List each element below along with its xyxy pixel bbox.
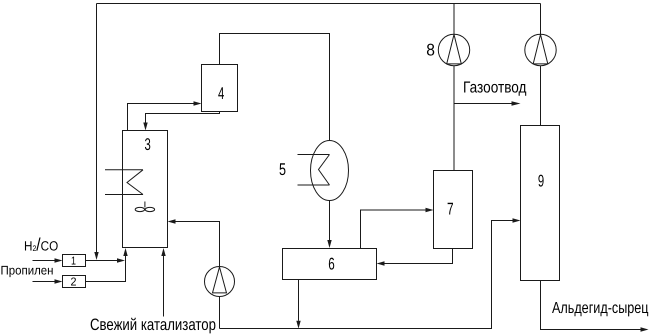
wire recycle gas downcomer [96, 4, 98, 253]
arrowhead crude aldehyde outlet [641, 327, 649, 331]
arrowhead feed junction [117, 258, 125, 262]
svg-text:4: 4 [218, 84, 224, 103]
vessel 7 [434, 171, 473, 249]
compressor 8 [438, 34, 469, 65]
column 9 [521, 126, 560, 281]
reactor 3 [123, 131, 168, 248]
compressor (right) [525, 34, 556, 65]
wire doser 1 outlet [86, 260, 118, 262]
doser 2 [63, 276, 86, 288]
wire reactor 3 overhead to condenser 4 [128, 104, 194, 131]
svg-text:Альдегид-сырец: Альдегид-сырец [552, 300, 649, 317]
svg-text:9: 9 [538, 171, 544, 190]
wire gas vent arrow [454, 103, 512, 105]
arrowhead reflux into reactor 3 top [143, 123, 147, 131]
wire cooler 5 to separator 6 [329, 201, 331, 241]
arrowhead pump discharge into reactor 3 [168, 219, 176, 223]
wire H2/CO feed arrow into doser 1 [33, 260, 55, 262]
svg-text:5: 5 [279, 160, 286, 179]
wire column 9 overhead to compressor [540, 4, 542, 126]
arrowhead H2/CO into doser 1 [55, 258, 63, 262]
cooler 5 [311, 141, 349, 201]
arrowhead recycle gas onto feed line [94, 252, 98, 260]
reactor 3 agitator [135, 207, 144, 211]
arrowhead liquid into column 9 [513, 218, 521, 222]
wire pump discharge to reactor 3 [176, 222, 220, 267]
wire recycle gas header [97, 3, 541, 5]
arrowhead cooler 5 outlet into separator 6 [327, 240, 331, 248]
arrowhead feed into reactor 3 bottom [123, 248, 127, 256]
wire separator 6 liquid header to column 9 [220, 221, 513, 329]
wire pump suction [219, 297, 221, 329]
separator 6 [283, 249, 377, 280]
wire condenser 4 vapor to cooler 5 [220, 34, 330, 141]
reactor 3 cooling coil [105, 170, 143, 195]
svg-text:8: 8 [426, 41, 435, 60]
arrowhead gas vent [512, 101, 521, 105]
arrowhead separator 6 drain [296, 321, 300, 329]
svg-text:Свежий катализатор: Свежий катализатор [90, 316, 216, 334]
arrowhead vapor into vessel 7 [426, 208, 434, 212]
arrowhead fresh catalyst into reactor 3 [161, 248, 165, 256]
wire propylene feed arrow into doser 2 [33, 281, 55, 283]
arrowhead overhead into condenser 4 [194, 101, 202, 105]
svg-text:2: 2 [71, 276, 77, 288]
wire vessel 7 bottoms return to separator 6 [385, 249, 453, 264]
svg-text:3: 3 [145, 135, 151, 154]
wire separator 6 vapor to vessel 7 [361, 210, 426, 249]
wire condenser 4 reflux to reactor 3 [146, 112, 220, 123]
doser 1 [63, 255, 86, 267]
svg-text:1: 1 [71, 255, 76, 267]
arrowhead vessel 7 return into separator 6 [377, 261, 385, 265]
arrowhead propylene into doser 2 [55, 279, 63, 283]
svg-text:6: 6 [328, 255, 335, 274]
svg-text:Пропилен: Пропилен [1, 264, 54, 278]
wire column 9 bottoms outlet [541, 281, 641, 330]
condenser 4 [202, 65, 238, 112]
wire vessel 7 overhead to compressor 8 [453, 4, 455, 171]
wire separator 6 bottom drain [298, 280, 300, 321]
svg-text:7: 7 [447, 200, 454, 219]
catalyst pump [205, 267, 235, 297]
wire fresh catalyst feed [163, 256, 165, 317]
wire doser 2 outlet riser to reactor 3 [86, 256, 126, 282]
svg-text:Газоотвод: Газоотвод [463, 80, 527, 97]
